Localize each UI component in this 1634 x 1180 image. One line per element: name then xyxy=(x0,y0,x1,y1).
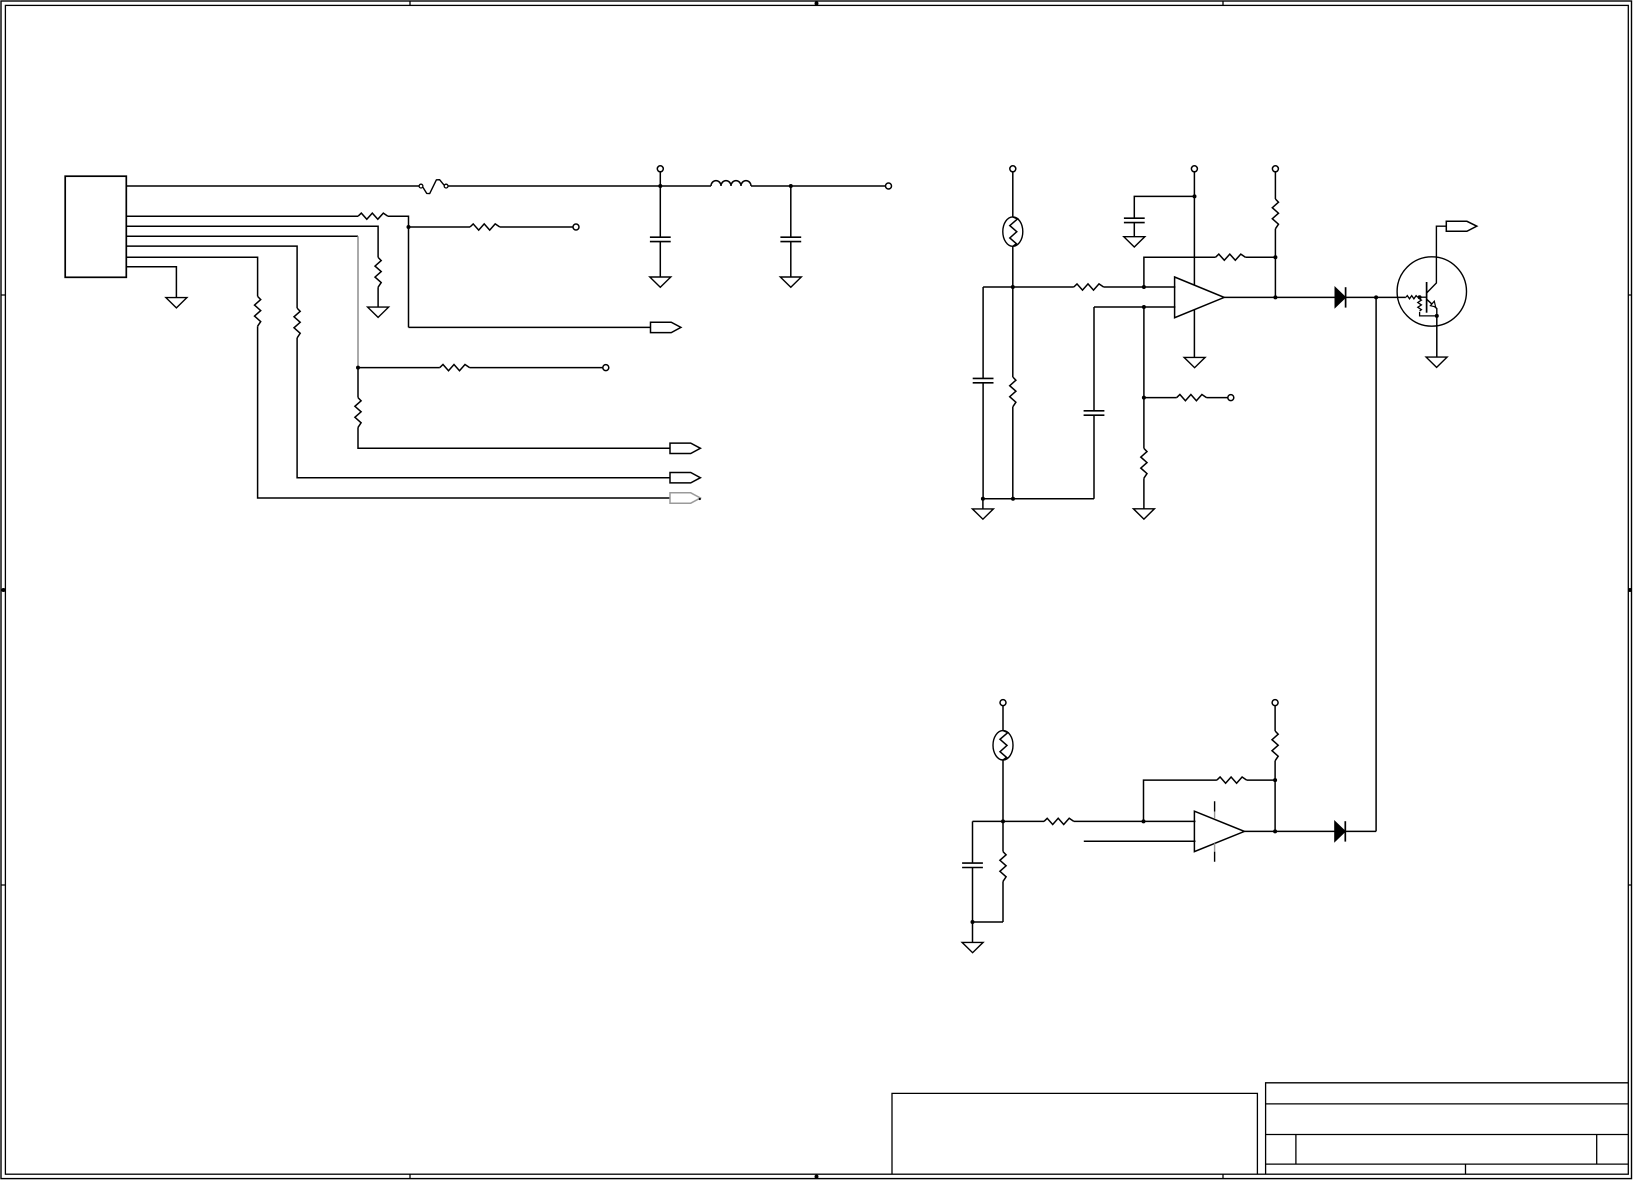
ground xyxy=(166,298,187,308)
ground op-amp xyxy=(1184,357,1205,367)
node Q junction xyxy=(1142,819,1146,823)
resistor R17 xyxy=(1002,821,1004,851)
wire node T ground xyxy=(972,922,974,942)
wire R16 down xyxy=(1274,761,1276,832)
diode D1 xyxy=(1335,287,1346,307)
wire R9 to node G xyxy=(1245,256,1275,258)
node base junction xyxy=(1418,295,1422,299)
wire R12 to TP5 xyxy=(1207,397,1229,399)
wire op-amp2 output xyxy=(1244,830,1334,832)
wire node P to R14 xyxy=(1003,820,1044,822)
wire R5 to flag xyxy=(358,427,670,448)
op-amp power stubs xyxy=(1214,801,1216,862)
wire node C to R2 xyxy=(409,226,471,228)
resistor R1 xyxy=(358,213,388,219)
wire R6 to flag xyxy=(297,338,670,478)
resistor R6 xyxy=(294,308,300,338)
wire R15 to node R xyxy=(1247,779,1275,781)
capacitor C1 xyxy=(650,237,671,241)
capacitor C5 xyxy=(1093,415,1095,499)
node I junction xyxy=(1193,194,1197,198)
node C junction xyxy=(407,225,411,229)
connector flag OUT3 xyxy=(670,473,700,483)
node K junction xyxy=(1142,396,1146,400)
transistor Q1 xyxy=(1397,257,1466,326)
ground xyxy=(650,277,671,287)
ground xyxy=(962,942,983,952)
ground xyxy=(972,509,993,519)
wire node A down xyxy=(659,186,661,237)
ground xyxy=(1133,509,1154,519)
node E junction xyxy=(1011,285,1015,289)
terminal TP5 xyxy=(1228,395,1234,401)
wire inverting input2 xyxy=(1084,840,1196,842)
wire inverting input xyxy=(1094,306,1176,308)
wire pin1 to F1 xyxy=(126,185,419,187)
wire gray vertical xyxy=(357,236,359,367)
node P junction xyxy=(1001,819,1005,823)
node H junction on output xyxy=(1273,295,1277,299)
terminal V+ opamp xyxy=(1191,166,1197,172)
wire pin7 xyxy=(126,267,176,298)
node B junction xyxy=(789,184,793,188)
resistor R16 xyxy=(1272,731,1278,761)
wire node M to C5 xyxy=(1013,498,1094,500)
terminal V+ sensor xyxy=(1010,166,1016,172)
wire node B to TP2 xyxy=(791,185,886,187)
terminal TP4 xyxy=(603,365,609,371)
wire R10 down xyxy=(1274,229,1276,298)
capacitor C2 xyxy=(790,186,792,237)
wire pin2 xyxy=(126,215,358,217)
resistor R8 xyxy=(1074,284,1104,290)
wire bus down xyxy=(1375,297,1377,831)
resistor R12 xyxy=(1177,395,1207,401)
node T junction xyxy=(971,920,975,924)
capacitor C3 xyxy=(1124,218,1145,222)
resistor R2 xyxy=(470,224,500,230)
thermistor RT1 xyxy=(1003,217,1023,246)
capacitor C6 xyxy=(972,821,974,863)
op-amp U2 xyxy=(1175,277,1225,318)
terminal V+ pullup2 xyxy=(1272,700,1278,706)
wire node E left corner xyxy=(983,286,1013,288)
wire R14 to op-amp xyxy=(1074,820,1196,822)
ground xyxy=(1124,237,1145,247)
wire RT1 to node E xyxy=(1012,246,1014,287)
wire pin6 xyxy=(126,257,257,296)
resistor R5 xyxy=(355,398,361,428)
node emitter junction xyxy=(1435,314,1439,318)
node S junction on output xyxy=(1273,829,1277,833)
wire node N to Q1 base xyxy=(1376,296,1406,298)
wire feedback up2 xyxy=(1144,780,1217,821)
node F junction xyxy=(1142,285,1146,289)
node G junction xyxy=(1273,255,1277,259)
capacitor C4 xyxy=(982,287,984,378)
wire node P left corner xyxy=(973,820,1004,822)
wire base xyxy=(1418,296,1427,298)
resistor R11 xyxy=(1141,448,1147,478)
ground xyxy=(780,277,801,287)
wire node L to node M xyxy=(983,498,1013,500)
wire pin5 xyxy=(126,246,297,308)
terminal V+ pullup xyxy=(1272,166,1278,172)
ground xyxy=(368,307,389,317)
connector flag OUT2 xyxy=(670,443,700,453)
collector xyxy=(1427,226,1447,293)
emitter arrow xyxy=(1430,301,1435,307)
wire R3 to ground xyxy=(377,287,379,307)
diode D2 xyxy=(1335,821,1346,841)
resistor R7 xyxy=(255,296,261,326)
wire D2 to bus xyxy=(1345,830,1376,832)
resistor Re internal xyxy=(1419,297,1421,299)
wire R2 to TP3 xyxy=(500,226,573,228)
node A junction xyxy=(658,184,662,188)
node R junction xyxy=(1273,778,1277,782)
resistor R10 xyxy=(1272,199,1278,229)
wire R7 to flag xyxy=(258,326,670,498)
node N junction xyxy=(1374,295,1378,299)
wire pin4 xyxy=(126,235,358,237)
wire node D down xyxy=(357,368,359,398)
thermistor RT2 xyxy=(993,731,1013,760)
terminal V+ sensor2 xyxy=(1000,700,1006,706)
wire R4 to TP4 xyxy=(470,367,603,369)
emitter xyxy=(1427,299,1437,316)
op-amp U3 xyxy=(1194,811,1244,851)
wire node K down xyxy=(1143,398,1145,449)
connector flag OUT1 xyxy=(651,322,681,332)
inductor L1 xyxy=(660,185,711,187)
node L junction xyxy=(981,497,985,501)
connector flag VOUT xyxy=(1446,221,1477,231)
wire node K to R12 xyxy=(1144,397,1177,399)
wire emitter to ground xyxy=(1436,316,1438,357)
wire node I to C3 xyxy=(1134,196,1194,218)
node J junction xyxy=(1142,305,1146,309)
resistor R9 feedback xyxy=(1216,254,1246,260)
node D junction xyxy=(356,366,360,370)
wire op-amp output xyxy=(1224,296,1335,298)
resistor R15 feedback xyxy=(1217,777,1247,783)
fuse F1 xyxy=(419,184,423,188)
resistor R3 xyxy=(375,257,381,287)
wire pin3 xyxy=(126,226,378,257)
IC U1 xyxy=(65,176,126,277)
resistor R14 xyxy=(1044,818,1074,824)
ground xyxy=(1426,357,1447,367)
wire feedback up xyxy=(1144,257,1216,287)
wire R8 to op-amp xyxy=(1104,286,1176,288)
wire node L ground xyxy=(982,499,984,509)
wire node E to R8 xyxy=(1013,286,1074,288)
wire to flag xyxy=(409,326,651,328)
wire R1 corner down xyxy=(388,216,409,327)
wire node D to R4 xyxy=(358,367,440,369)
terminal TP3 xyxy=(573,224,579,230)
terminal TP2 xyxy=(886,183,892,189)
wire opamp power xyxy=(1193,172,1195,358)
wire node J down xyxy=(1143,307,1145,398)
resistor Rb internal xyxy=(1406,296,1417,299)
node M junction xyxy=(1011,497,1015,501)
base bar xyxy=(1426,282,1428,313)
wire F1 to node A xyxy=(448,185,660,187)
resistor R13 xyxy=(1012,287,1014,377)
wire R11 to ground xyxy=(1143,478,1145,509)
terminal TP1 xyxy=(659,172,661,186)
wire R17 to node T xyxy=(973,921,1004,923)
wire D1 to node N xyxy=(1346,296,1377,298)
resistor R4 xyxy=(440,365,470,371)
wire RT2 to node P xyxy=(1002,760,1004,821)
connector flag OUT4 xyxy=(670,493,700,503)
